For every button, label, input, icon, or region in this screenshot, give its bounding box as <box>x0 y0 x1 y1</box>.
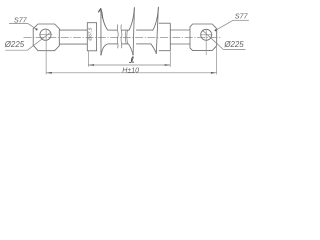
right hole horizontal centerline <box>200 34 213 36</box>
right eye hole <box>201 29 212 40</box>
left &#216;225 leader line <box>28 32 52 50</box>
sheath rod segment A <box>108 30 118 44</box>
right flange <box>159 23 171 51</box>
dimension l: right arrow <box>165 64 171 66</box>
rod break arcs <box>125 30 127 44</box>
right shank <box>170 30 190 44</box>
dimension l: left extension line <box>87 51 89 67</box>
dimension l: left arrow <box>88 64 94 66</box>
weathershed 1 <box>98 8 107 55</box>
sheath rod segment B <box>122 30 129 44</box>
svg-text:Ø67,5: Ø67,5 <box>88 27 94 41</box>
right &#216;225 underline <box>223 48 245 50</box>
right St7 leader dot <box>215 29 217 31</box>
dimension l: dimension line <box>88 64 170 66</box>
weathershed 2 <box>128 7 134 55</box>
dimension l: label (script ell) <box>129 57 134 63</box>
dimension H: right arrow <box>211 72 217 74</box>
right H extension line <box>216 29 218 75</box>
svg-text:H±10: H±10 <box>122 67 139 74</box>
left eye octagon <box>33 24 59 51</box>
svg-text:S77: S77 <box>235 11 249 20</box>
left shank <box>59 30 87 44</box>
right eye octagon <box>190 24 217 51</box>
right St7 label underline <box>233 19 249 21</box>
svg-text:Ø225: Ø225 <box>4 40 25 49</box>
dimension l: right extension line <box>169 51 171 67</box>
left hole vertical centerline / H extension line <box>45 29 47 75</box>
left eye hole <box>40 29 51 40</box>
svg-text:S77: S77 <box>14 15 28 24</box>
left St7 leader dot <box>36 28 38 30</box>
main axis centerline <box>24 36 222 38</box>
break lines <box>117 25 122 49</box>
right St7 leader line <box>216 20 233 30</box>
right &#216;225 leader line <box>202 30 223 50</box>
dimension H: left arrow <box>46 72 52 74</box>
left flange <box>87 23 96 51</box>
dimension H: dimension line <box>46 72 216 74</box>
left hole horizontal centerline <box>39 34 52 36</box>
left St7 label underline <box>9 23 28 25</box>
left &#216;225 underline <box>5 49 27 51</box>
svg-text:Ø225: Ø225 <box>223 40 244 49</box>
sheath rod segment C <box>136 30 153 44</box>
left St7 leader line <box>28 24 37 30</box>
weathershed 3 <box>151 7 159 53</box>
right hole vertical centerline <box>205 29 207 55</box>
